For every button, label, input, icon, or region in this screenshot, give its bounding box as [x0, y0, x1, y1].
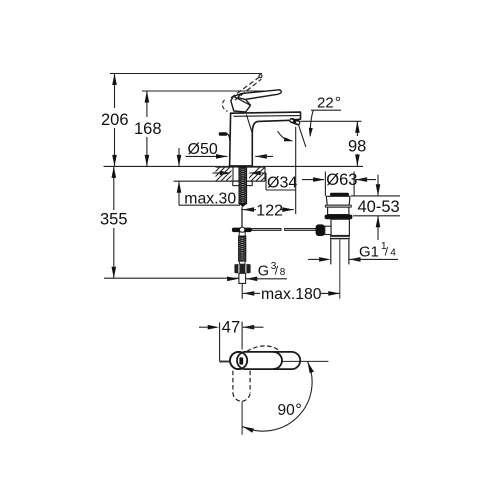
dimension 206 arrow up [112, 74, 117, 86]
dimension 168 arrow up [145, 91, 150, 103]
svg-text:Ø50: Ø50 [188, 141, 218, 158]
top view logo dot [246, 360, 248, 362]
pop-up vertical rod upper [241, 207, 243, 227]
mounting reference plane line [104, 165, 364, 167]
40-53 upper arrow line [377, 175, 379, 196]
top view valve circle [230, 352, 247, 369]
svg-text:8: 8 [280, 267, 286, 278]
dimension 98 top extension line [301, 120, 362, 122]
pop-up pull rod knob [219, 132, 230, 140]
40-53 arrow down [376, 184, 381, 196]
drain flange collar [325, 205, 351, 207]
handle base ghost dashed outline [222, 100, 227, 112]
22deg label underline [311, 109, 341, 111]
Ø34 label underline [266, 189, 296, 191]
handle raised position dashed edge 2 [235, 79, 261, 100]
drain lever connector [325, 226, 331, 234]
G1 1/4 arrow right [319, 257, 331, 262]
svg-text:Ø63: Ø63 [326, 171, 357, 189]
top view handle pill [237, 352, 300, 369]
top view logo mark [239, 357, 243, 364]
dimension Ø63 right tail [356, 179, 376, 181]
drain neck [328, 207, 349, 215]
dimension G1 1/4 left tail [308, 258, 319, 260]
dimension 206 vertical line upper [114, 74, 116, 109]
top view vertical centerline upper [241, 322, 243, 350]
mounting washer under deck [233, 181, 252, 185]
Ø34 label leader vertical [265, 173, 267, 190]
max.180 left tail [243, 292, 260, 294]
faucet body inner diagonal line [246, 115, 252, 133]
max.30 label underline [179, 204, 240, 206]
dimension Ø34 arrow left [249, 171, 261, 176]
dimension 98 arrow down [355, 155, 360, 167]
top view rear knob bar [219, 361, 230, 363]
drain lower seal [330, 236, 350, 240]
G3/8 right tail [246, 278, 287, 280]
dimension Ø63 left tail [302, 179, 324, 181]
dimension 98 vertical lower [356, 154, 358, 166]
dimension 168 arrow down [145, 155, 150, 167]
dimension 168 vertical line lower [146, 137, 148, 166]
G3/8 hose nut [234, 264, 250, 273]
handle lever blade [238, 90, 281, 100]
drain top flange [326, 196, 350, 205]
top view vertical centerline lower [241, 402, 243, 435]
dimension Ø34 right tail to label [249, 172, 266, 174]
svg-text:4: 4 [390, 248, 396, 259]
svg-text:40-53: 40-53 [358, 198, 400, 216]
hose end tube [239, 273, 246, 283]
drain centerline extension [339, 240, 341, 299]
dimension 355 arrow down [112, 267, 117, 279]
braided supply hose [239, 236, 246, 261]
dimension Ø50 arrow right [216, 154, 228, 159]
dimension 98 vertical upper [356, 121, 358, 136]
90deg arc arrow left [243, 426, 255, 432]
dimension 122 right tail [281, 209, 294, 211]
max.30 arrow down at deck top [177, 155, 182, 167]
hose collar [239, 261, 245, 264]
dimension Ø63 arrow right [313, 177, 325, 182]
dimension 122 arrow left [243, 207, 255, 212]
dimension 355 vertical line upper [113, 166, 115, 210]
svg-text:Ø34: Ø34 [267, 175, 297, 192]
svg-text:355: 355 [100, 211, 128, 229]
dimension 122 left tail [243, 209, 257, 211]
dimension Ø50 arrow left [255, 154, 266, 159]
dimension 47 right tail [243, 326, 264, 328]
countertop deck hatched section [203, 164, 283, 184]
top view valve circle restroke [230, 352, 247, 369]
dimension 168 top extension line [142, 90, 280, 92]
max.180 arrow right [328, 291, 340, 296]
flexible hose through deck [233, 167, 239, 181]
dimension 47 arrow left [243, 325, 255, 330]
dimension 47 arrow right [208, 325, 220, 330]
G1 1/4 arrow left [349, 257, 361, 262]
40-53 lower arrow line [377, 216, 379, 240]
dimension Ø50 right tail [255, 155, 273, 157]
pop-up rod pivot bar [232, 227, 252, 232]
dimension 168 vertical line upper [146, 91, 148, 117]
dimension Ø63 arrow left [356, 177, 368, 182]
drain body [331, 219, 349, 235]
drain lever ball knob [316, 224, 325, 236]
lower reference line at hose end [104, 277, 239, 279]
svg-text:°: ° [335, 94, 341, 111]
top view handle down dashed right edge [249, 371, 251, 393]
drain plug cap [330, 193, 349, 196]
22deg left arc arrowhead [284, 137, 294, 141]
dimension 206 arrow down [112, 155, 117, 167]
spout aerator [289, 117, 301, 126]
top view handle down dashed cap [233, 393, 250, 402]
deck underside extension line [174, 180, 217, 182]
drain basin gasket [325, 215, 353, 220]
svg-text:47: 47 [222, 319, 240, 337]
svg-text:98: 98 [348, 138, 366, 156]
faucet body outline [230, 112, 301, 166]
dimension 206 top extension line [110, 73, 262, 75]
hose connector below pivot [239, 232, 245, 236]
svg-text:max.30: max.30 [184, 190, 236, 207]
dimension 206 vertical line lower [114, 128, 116, 166]
handle base facet line [234, 96, 251, 105]
svg-text:168: 168 [134, 120, 162, 138]
svg-text:90: 90 [278, 402, 296, 419]
22deg right arc arrowhead [309, 128, 313, 138]
G3/8 arrow left [246, 277, 257, 282]
22deg left arc [278, 131, 288, 140]
max.180 arrow left [243, 291, 255, 296]
22deg spray slanted line [298, 123, 306, 147]
G1 1/4 right tail [349, 258, 398, 260]
max.30 arrow up at deck underside [177, 181, 182, 193]
top view handle raised dashed outline [247, 346, 280, 351]
aerator vertical extension line [295, 127, 297, 214]
dimension 355 arrow up [112, 166, 117, 178]
drain tailpiece left wall [330, 239, 332, 264]
dimension Ø50 left line [186, 155, 228, 157]
dimension 98 arrow up [355, 121, 360, 133]
raised handle tip circle [259, 75, 262, 78]
40-53 arrow up [376, 216, 381, 228]
top view handle down dashed left edge [232, 371, 234, 393]
dimension 47 left tail [199, 326, 208, 328]
90 degree swing arc [242, 361, 312, 431]
dimension Ø34 left tail [213, 172, 221, 174]
dimension 122 arrow right [282, 207, 294, 212]
max.180 right tail [321, 292, 340, 294]
47 left extension line [219, 323, 221, 362]
horizontal pop-up rod segment 2 [285, 229, 316, 231]
handle raised position dashed edge 1 [231, 77, 260, 98]
max.30 lower arrow line [178, 181, 180, 205]
max.30 upper arrow line [178, 148, 180, 166]
threaded mounting stud [239, 167, 247, 207]
svg-text:206: 206 [101, 111, 129, 129]
handle faceted base [231, 94, 251, 112]
top view handle inner cap arc [273, 352, 282, 369]
supply hose centerline extension [241, 283, 243, 298]
top view horizontal centerline [282, 360, 329, 362]
40-53 bottom extension line [353, 215, 400, 217]
dimension 355 vertical line lower [113, 228, 115, 278]
Ø63 left extension line [324, 172, 326, 196]
dimension Ø34 arrow right [220, 171, 232, 176]
G3/8 arrow right [227, 277, 239, 282]
40-53 top extension line [351, 195, 400, 197]
svg-text:122: 122 [256, 203, 283, 220]
22deg right arc [310, 110, 313, 135]
svg-text:22: 22 [317, 94, 334, 111]
Ø63 right extension line [353, 172, 355, 196]
svg-text:max.180: max.180 [261, 286, 322, 303]
horizontal pop-up rod segment 1 [252, 229, 281, 231]
svg-text:G: G [258, 264, 269, 280]
svg-text:°: ° [295, 401, 302, 419]
drain tailpiece right wall [348, 239, 350, 264]
svg-text:G1: G1 [359, 244, 379, 261]
90deg arc arrow up [308, 362, 314, 374]
